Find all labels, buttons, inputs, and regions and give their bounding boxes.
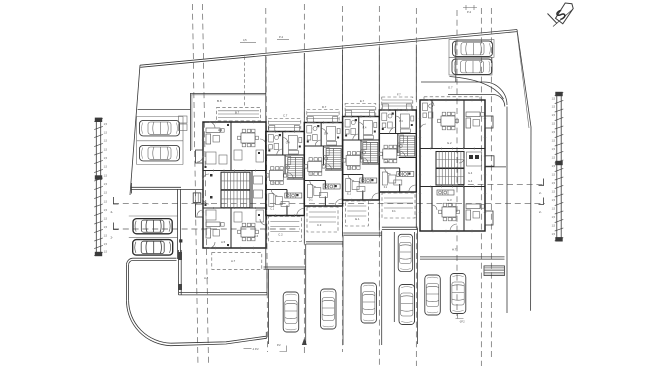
axis 6 dashed: [456, 10, 458, 316]
unit U4 bed: [363, 121, 372, 135]
svg-text:2-: 2-: [539, 210, 542, 214]
unit U1 lower apt closet + marks: [206, 210, 216, 220]
section mark left upper: [114, 197, 119, 204]
svg-text:B.8: B.8: [217, 99, 222, 103]
svg-text:G.4: G.4: [468, 179, 473, 183]
unit U5 kitchen island: [394, 180, 402, 185]
unit U6 interior bath upper left: [423, 103, 433, 118]
unit U4 kitchen: [360, 178, 377, 183]
garden fences between lower gardens: [265, 216, 267, 269]
unit U6 bath core: [467, 152, 482, 166]
axis 7 dashed: [480, 8, 482, 366]
axis 8 dashed: [490, 8, 492, 358]
svg-text:C.4: C.4: [286, 142, 291, 145]
unit U1 terrace upper dashed: [217, 107, 261, 121]
curb left vertical double: [127, 265, 129, 301]
garden U1 west fence dark: [178, 250, 180, 295]
unit U5 door arcs: [390, 128, 396, 134]
unit U6 outer walls: [420, 100, 485, 231]
road edge west double line: [131, 186, 181, 188]
unit U5 kitchen: [397, 172, 414, 177]
unit U5 wardrobe: [400, 129, 410, 133]
svg-text:H.T: H.T: [452, 248, 457, 252]
parking east edge double line: [177, 189, 179, 259]
unit U6 window ticks mid: [430, 148, 432, 150]
unit U4 bath: [345, 120, 355, 135]
unit U5 bed: [400, 114, 409, 128]
svg-text:C.2: C.2: [278, 233, 283, 237]
upper stall rect 1: [449, 40, 494, 58]
svg-text:C.7: C.7: [283, 114, 288, 118]
unit U2 kitchen: [285, 193, 302, 198]
unit U6 sofa upper: [466, 112, 484, 128]
car P10: [398, 234, 412, 271]
unit U6 dining lower: [439, 203, 460, 221]
svg-text:P.2: P.2: [277, 343, 281, 347]
terrace E.1 dashed: [345, 201, 368, 226]
unit U5 wc mid: [398, 135, 404, 143]
svg-text:E.1: E.1: [355, 217, 360, 221]
site boundary top double slanted line: [140, 30, 517, 66]
unit U3 kitchen: [323, 184, 340, 189]
garden U6 top edge + corner arc: [421, 82, 507, 105]
unit U3 sofa: [307, 185, 312, 198]
unit U2 stairs: [288, 158, 303, 178]
gate mark on parking east line: [179, 239, 182, 242]
svg-text:-1P.2: -1P.2: [459, 321, 465, 324]
svg-text:G.4: G.4: [468, 171, 473, 175]
unit U5 interior partitions: [379, 133, 416, 135]
car P5: [453, 41, 493, 57]
unit U1 bath fixtures lower: [256, 210, 264, 222]
car P12: [425, 275, 441, 315]
unit U2 entry step top left: [269, 126, 275, 132]
axis 2 dashed: [303, 4, 305, 356]
car P1: [140, 120, 180, 135]
unit U5 dining: [379, 145, 400, 163]
svg-text:P-2: P-2: [467, 10, 472, 14]
section line 2-2 dashed: [113, 203, 545, 205]
unit U2 door arcs: [277, 149, 283, 155]
dim text P-2 top: [277, 39, 289, 41]
unit U4 outer walls: [343, 117, 380, 201]
curb big arc double: [126, 300, 170, 345]
garden B.8 fence box: [191, 93, 267, 151]
road outer curve top right: [450, 77, 504, 100]
axis 5 dashed: [415, 8, 417, 366]
unit U4 kitchen island: [357, 187, 365, 192]
car P8: [321, 289, 337, 329]
unit U3 bed: [327, 127, 336, 141]
unit U5 outer walls: [379, 110, 416, 192]
unit U3 upper terrace: [307, 110, 339, 123]
unit U1 bath fixtures upper: [256, 150, 264, 162]
unit U1 floor split walls: [203, 170, 266, 172]
unit U2 outer walls: [266, 132, 305, 216]
unit U4 sofa: [346, 179, 351, 192]
svg-text:E.1: E.1: [347, 193, 351, 196]
car P11: [399, 285, 415, 325]
car P6: [452, 59, 492, 75]
north arrow: [548, 3, 574, 27]
unit U1 stairs upper: [221, 172, 250, 190]
curb label P.2: [244, 348, 252, 350]
axis A dashed: [193, 4, 199, 366]
unit U3 stairs: [326, 149, 341, 169]
site boundary right: [517, 30, 531, 311]
unit U3 kitchen island: [319, 193, 327, 198]
unit U4 wardrobe: [363, 136, 373, 140]
svg-text:F.1: F.1: [392, 209, 396, 213]
svg-text:P-2: P-2: [279, 35, 284, 39]
axis 2 arrow marker: [302, 338, 307, 345]
unit U4 interior partitions: [343, 139, 380, 141]
unit U1 stairs lower: [221, 190, 250, 208]
garden divider 6: [455, 41, 457, 82]
axis B dashed: [203, 4, 209, 366]
unit U3 outer walls: [304, 123, 342, 207]
terrace C.2 dashed: [268, 217, 301, 242]
left dimension line: [95, 120, 97, 254]
unit U4 door arcs: [353, 134, 359, 140]
curb bottom double to end tick: [171, 332, 267, 346]
svg-text:E.3: E.3: [349, 168, 353, 171]
unit U5 bath: [382, 113, 392, 128]
garden U1 bottom double: [179, 292, 267, 294]
unit U3 wc mid: [323, 148, 329, 156]
unit U6 east protrusions: [485, 116, 493, 128]
svg-text:F.4: F.4: [399, 120, 403, 123]
car P13: [450, 274, 466, 314]
terrace F.1 dashed: [382, 193, 415, 218]
U6 walkway south double line: [420, 256, 505, 258]
unit U1 sofa lower apt: [206, 222, 224, 238]
svg-text:G.3: G.3: [447, 198, 452, 202]
svg-text:2-: 2-: [539, 191, 542, 195]
unit U5 hall wall: [399, 168, 401, 176]
svg-text:A.6: A.6: [254, 234, 259, 238]
garden divider 1: [265, 56, 267, 122]
unit U1 upper apt closet + marks: [206, 152, 216, 164]
garden U1 east fence: [266, 270, 268, 295]
unit U3 wardrobe: [327, 142, 337, 146]
U6 outdoor stairs hatch: [484, 266, 505, 276]
curb label 2 bottom: [280, 346, 287, 352]
curb top double line: [133, 258, 177, 260]
unit U2 hall wall: [286, 190, 288, 198]
unit U4 hall wall: [362, 175, 364, 183]
svg-text:4,5: 4,5: [243, 38, 247, 42]
section mark left lower: [114, 223, 119, 230]
svg-text:D.7: D.7: [322, 105, 327, 109]
unit U3 hall wall: [324, 181, 326, 189]
svg-text:2-: 2-: [111, 236, 114, 240]
svg-text:E.4: E.4: [363, 127, 367, 130]
car P3: [133, 219, 172, 234]
unit U1 west terrace boxes top: [179, 116, 188, 123]
label 1Pa mark: [456, 314, 464, 319]
garden divider dashed mid B.8: [244, 57, 246, 108]
U6 walk top edge + inner corner arc: [448, 95, 505, 107]
unit U6 stairs: [436, 152, 464, 169]
dim text P-2 far top: [463, 5, 477, 10]
unit U1 west entry lower: [196, 204, 204, 217]
garden divider 5: [415, 45, 417, 101]
unit U1 mid hall marks: [251, 171, 253, 209]
garden bottoms stepped double lines: [264, 266, 306, 268]
section mark right lower: [539, 198, 544, 205]
unit U5 entry step top left: [382, 104, 388, 110]
unit U6 floor split walls: [420, 148, 485, 150]
unit U3 bath: [307, 126, 317, 141]
svg-text:G.7: G.7: [448, 86, 453, 90]
unit U6 sofa lower: [466, 204, 484, 220]
unit U1 outer walls: [203, 122, 266, 248]
garden divider 3: [342, 50, 344, 117]
lower stall lines: [129, 215, 178, 217]
unit U4 stairs: [363, 143, 378, 163]
unit U5 stairs: [400, 136, 415, 156]
unit U2 wardrobe: [288, 151, 298, 155]
terrace C.3 dashed: [307, 207, 338, 232]
unit U2 upper terrace: [268, 119, 301, 132]
car P4: [133, 240, 173, 256]
svg-text:A.5: A.5: [221, 240, 226, 244]
svg-text:A.7: A.7: [231, 259, 236, 263]
unit U1 window ticks mid walls: [213, 170, 215, 172]
unit U3 door arcs: [315, 140, 321, 146]
unit U6 dining upper: [438, 112, 459, 130]
unit U5 sofa: [382, 172, 387, 185]
unit U1 entry core marks: [210, 174, 213, 177]
unit U6 doors: [420, 100, 464, 231]
dim text top left: [240, 42, 256, 44]
unit U2 bed: [288, 136, 297, 150]
curb corner arc: [127, 258, 134, 265]
svg-text:F.7: F.7: [397, 93, 401, 97]
unit U2 dining: [266, 167, 287, 185]
unit U4 upper terrace: [345, 104, 376, 117]
car P9: [361, 283, 377, 323]
parking top edge: [138, 108, 191, 110]
svg-text:G.2: G.2: [447, 141, 452, 145]
stall verticals bottom parking: [267, 269, 269, 344]
upper stall rect 2: [449, 57, 492, 75]
unit U1 west entry steps: [193, 193, 201, 203]
svg-text:E.7: E.7: [360, 99, 365, 103]
unit U2 wc mid: [285, 157, 291, 165]
right dimension line: [556, 94, 558, 239]
unit U6 terrace upper: [424, 96, 480, 98]
unit U5 upper terrace: [382, 97, 413, 110]
unit U1 sofa upper apt: [206, 128, 224, 144]
section mark right upper: [539, 179, 544, 186]
svg-text:C.1: C.1: [270, 208, 275, 211]
section line right dashed: [458, 183, 545, 185]
svg-text:A.3: A.3: [218, 128, 223, 132]
svg-text:D.3: D.3: [310, 174, 315, 177]
unit U3 interior partitions: [304, 145, 342, 147]
east yard line vertical: [506, 107, 508, 314]
unit U3 entry step top left: [307, 117, 313, 123]
unit U6 kitchen lower: [437, 190, 454, 195]
svg-text:D.1: D.1: [309, 199, 314, 202]
svg-text:F.1: F.1: [384, 186, 388, 189]
svg-text:F.3: F.3: [385, 161, 389, 164]
unit U1 doors arcs: [209, 122, 266, 248]
section line lower-left dashed: [113, 228, 300, 230]
axis 4 dashed: [378, 6, 380, 366]
svg-text:C.3: C.3: [317, 223, 322, 227]
site boundary left: [130, 65, 140, 195]
garden divider 2: [303, 53, 305, 123]
unit U2 interior partitions: [266, 154, 305, 156]
svg-text:B.7: B.7: [235, 111, 240, 115]
svg-text:2-: 2-: [111, 210, 114, 214]
unit U1 dining upper apt: [238, 129, 259, 147]
svg-text:D.4: D.4: [324, 133, 329, 136]
unit U4 wc mid: [361, 142, 367, 150]
axis 3 dashed: [342, 6, 344, 352]
unit U2 kitchen island: [281, 202, 289, 207]
upper stall lines: [137, 116, 183, 118]
axis 1 dashed: [266, 8, 268, 352]
unit U1 dining lower apt: [238, 223, 259, 241]
svg-text:C.3: C.3: [272, 183, 277, 186]
east yard fence line: [485, 166, 506, 168]
svg-text:A.8: A.8: [204, 276, 209, 280]
unit U4 entry step top left: [346, 111, 352, 117]
unit U2 bath: [268, 135, 278, 150]
car P2: [140, 145, 180, 161]
terrace A.7 dashed: [212, 253, 262, 270]
unit U1 west entry upper: [196, 150, 204, 163]
unit U4 dining: [343, 152, 364, 170]
car P7: [283, 292, 299, 332]
svg-text:-1 P.2: -1 P.2: [252, 347, 259, 351]
unit U3 dining: [304, 158, 325, 176]
unit U2 sofa: [269, 194, 274, 207]
garden divider 4: [378, 48, 380, 111]
